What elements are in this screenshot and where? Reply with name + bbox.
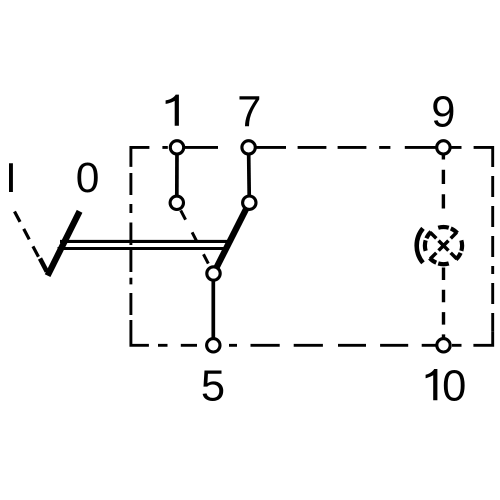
wire terminal 1 to contact xyxy=(175,147,179,202)
svg-text:5: 5 xyxy=(201,362,225,410)
label terminal 10 xyxy=(426,369,438,400)
lamp symbol: solid left arc xyxy=(417,228,423,262)
lamp / illumination symbol: dashed circle arcs xyxy=(425,227,462,264)
svg-text:I: I xyxy=(5,154,17,201)
lever (position 0, solid) xyxy=(48,211,80,275)
boundary top-left corner xyxy=(131,147,150,167)
boundary left edge (dash-dot) xyxy=(129,173,132,329)
lever foot (solid short arm at pivot tip) xyxy=(40,259,47,272)
fixed contact circle under terminal 7 xyxy=(243,196,256,209)
terminal 7 circle xyxy=(242,141,255,154)
svg-text:0: 0 xyxy=(442,362,466,410)
wire terminal 7 to contact xyxy=(247,147,251,202)
wire pivot to terminal 5 xyxy=(211,274,215,346)
terminal 10 circle xyxy=(437,339,450,352)
boundary right edge (dash-dot) xyxy=(491,176,494,332)
dashed lamp wire to terminal 10 xyxy=(442,268,445,339)
terminal 1 circle xyxy=(170,141,183,154)
switch blade (position 0, contact 7 to pivot) xyxy=(214,203,250,274)
label terminal 1 xyxy=(166,95,179,126)
fixed contact circle under terminal 1 xyxy=(170,196,183,209)
svg-text:7: 7 xyxy=(237,88,261,136)
actuator linkage double line (upper) xyxy=(60,240,229,243)
svg-text:0: 0 xyxy=(76,155,100,202)
boundary bottom-left corner xyxy=(131,329,149,345)
boundary bottom edge (dash-dot) xyxy=(158,344,462,347)
actuator linkage double line (lower) xyxy=(58,247,230,250)
pivot contact circle xyxy=(207,267,220,280)
lamp symbol: center cross xyxy=(439,241,449,251)
terminal 9 circle xyxy=(437,141,450,154)
boundary top-right corner xyxy=(474,147,493,167)
svg-text:9: 9 xyxy=(431,88,455,136)
boundary top edge (dash-dot) xyxy=(162,146,461,149)
switch blade alternate position (dashed, contact 1 to pivot) xyxy=(180,209,211,268)
lever alternate position I (dashed) xyxy=(15,212,42,263)
boundary bottom-right corner xyxy=(473,332,492,346)
terminal 5 circle xyxy=(207,339,220,352)
dashed lamp wire from terminal 9 xyxy=(442,154,445,217)
lamp symbol: X radial dashes xyxy=(430,232,457,259)
